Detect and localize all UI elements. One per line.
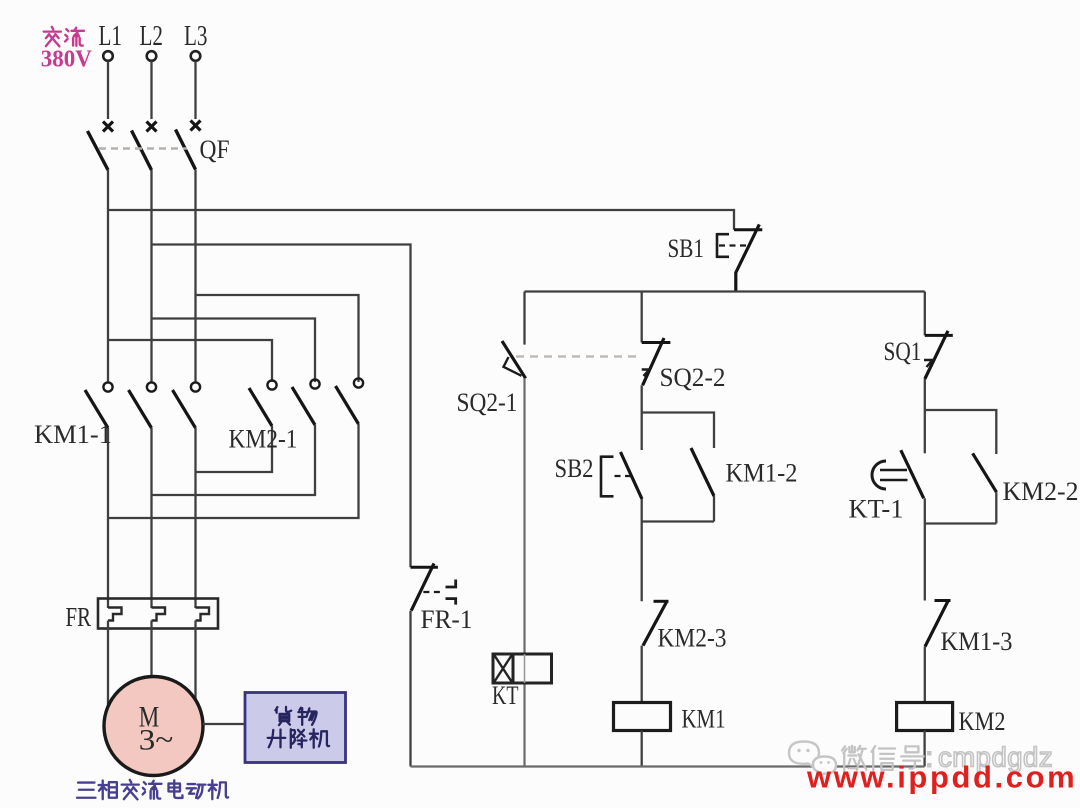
FR heater element 1: [108, 608, 122, 621]
wire L3 column QF to KM1-1: [194, 170, 196, 383]
wire KM2 coil to bottom rail: [923, 731, 925, 767]
motor M circle: [104, 677, 203, 776]
QF pole 1 blade: [88, 131, 109, 170]
contact KM1-2 (NO self-hold): [691, 448, 714, 496]
QF pole 1 X mark: [103, 122, 113, 132]
wire FR-1 to bottom rail: [409, 611, 411, 767]
thermal relay FR box: [98, 599, 218, 629]
thermal contact FR-1 (NC): [411, 563, 456, 610]
QF pole 2 blade: [132, 131, 152, 171]
label 货物 (cargo): [275, 707, 316, 725]
label 三相交流电动机 (three-phase AC motor) purple: [77, 780, 228, 799]
wire L1 drop: [107, 61, 109, 119]
svg-text:L2: L2: [140, 21, 164, 52]
contact KM2-3 (NC interlock): [643, 601, 669, 645]
node L1 terminal: [103, 51, 113, 61]
wire KM2-2 leg bottom: [995, 492, 997, 523]
FR heater element 3: [196, 608, 210, 621]
pushbutton SB2 (NO): [601, 452, 642, 499]
wire KM1-1 pole1 down to motor: [107, 428, 109, 608]
contact KM1-3 (NC interlock): [925, 601, 951, 647]
svg-text:KM1-2: KM1-2: [726, 459, 798, 488]
wire bottom rail: [411, 765, 925, 767]
wire U FR to motor: [107, 621, 109, 707]
wire tap L2 to KM2-1 pole2: [152, 319, 316, 383]
FR heater element 2: [152, 608, 166, 621]
wire parallel bottom rail right: [925, 522, 997, 524]
wire down to KM2-3: [641, 522, 643, 602]
wire KM2-1 pole3 bottom crossover to U: [108, 424, 359, 518]
svg-text:KM1-3: KM1-3: [941, 627, 1013, 656]
svg-text:SQ2-2: SQ2-2: [660, 363, 726, 392]
load box 货物升降机: [245, 693, 346, 763]
wire left branch down to SQ2-1: [523, 292, 525, 345]
svg-text:KT-1: KT-1: [849, 495, 904, 524]
svg-text:KM2-1: KM2-1: [229, 425, 298, 454]
wire KM2-1 pole1 bottom crossover to W: [196, 426, 273, 472]
wire KM1-1 pole3 down to motor: [194, 428, 196, 608]
contactor coil KM2: [897, 703, 953, 731]
wire SB2 leg bottom: [641, 499, 643, 522]
wire parallel bottom rail: [642, 520, 714, 522]
wire KT-1 leg bottom: [924, 498, 926, 523]
svg-text:SQ1: SQ1: [884, 337, 922, 366]
wire tap L2 to FR-1: [152, 245, 411, 568]
wechat icon: [789, 742, 836, 777]
svg-text:L3: L3: [184, 21, 208, 52]
svg-text:380V: 380V: [41, 47, 93, 73]
wire V FR to motor: [150, 621, 152, 678]
limit switch SQ2-2 (NC): [642, 338, 671, 385]
limit switch SQ1 (NC): [924, 331, 953, 379]
svg-text:FR-1: FR-1: [421, 605, 473, 634]
svg-text:KM1: KM1: [682, 705, 726, 734]
wire W FR to motor: [194, 621, 196, 701]
wire L1 column QF to KM1-1: [107, 170, 109, 382]
contact KM1-1 pole2: [129, 382, 157, 428]
node L3 terminal: [191, 51, 201, 61]
svg-text:FR: FR: [66, 602, 92, 632]
svg-text:SB1: SB1: [668, 234, 705, 263]
contact KM1-1 pole3: [173, 382, 201, 428]
wire right branch down to SQ1: [924, 292, 926, 336]
wire KM2-3 to KM1 coil: [641, 646, 643, 703]
wire KM1-3 to KM2 coil: [924, 647, 926, 703]
wire tap L1 to KM2-1 pole1: [108, 340, 272, 382]
label 交流 (AC) magenta: [44, 27, 84, 46]
svg-text:QF: QF: [200, 135, 230, 164]
svg-text:KM2: KM2: [959, 707, 1006, 736]
wire parallel top rail: [642, 413, 714, 449]
limit switch SQ2-1 (NO): [502, 341, 526, 378]
wire KM1-2 leg bottom: [713, 496, 715, 522]
wire KT-1 leg top: [924, 410, 926, 453]
svg-text:SQ2-1: SQ2-1: [457, 388, 518, 417]
wire L3 drop: [194, 61, 196, 119]
wire L2 drop: [150, 61, 152, 119]
QF mechanical link dashed: [99, 147, 187, 149]
contact KM2-2 (NO self-hold): [973, 453, 997, 492]
wire tap L3 to KM2-1 pole3: [196, 295, 359, 382]
wire motor to load box: [203, 723, 245, 725]
wire parallel top rail right: [925, 410, 997, 454]
svg-text:SB2: SB2: [555, 454, 594, 483]
time relay coil KT: [493, 654, 552, 683]
node L2 terminal: [147, 51, 157, 61]
wire down to KM1-3: [924, 524, 926, 601]
wire KM2-1 pole2 bottom crossover to V: [152, 425, 316, 495]
label 升降机 (lift): [268, 729, 329, 747]
wire SQ1 to parallel group: [924, 379, 926, 410]
SQ2 mechanical link dashed: [516, 355, 640, 357]
watermark 微信号: (wechat id) gray outline: [842, 746, 924, 771]
svg-text:3~: 3~: [139, 724, 174, 757]
wire SQ2-2 to parallel group: [641, 385, 643, 412]
wire middle branch down to SQ2-2: [641, 292, 643, 343]
QF pole 2 X mark: [147, 122, 157, 132]
wire rail2: [525, 290, 925, 292]
wire SB2 leg top: [641, 413, 643, 451]
svg-text:KM2-3: KM2-3: [658, 624, 727, 653]
svg-text:www.ippdd.com: www.ippdd.com: [806, 760, 1077, 795]
pushbutton SB1 (NC): [717, 224, 762, 291]
contact KM2-1 pole1: [249, 380, 277, 426]
contact KM2-1 pole3: [336, 378, 364, 424]
contact KT-1 (delayed NO): [872, 450, 924, 498]
contact KM1-1 pole1: [85, 382, 113, 428]
contact KM2-1 pole2: [292, 379, 320, 425]
wire top rail L1 to SB1: [108, 210, 734, 230]
wire KM1-1 pole2 down to motor: [150, 428, 152, 608]
svg-text:KM1-1: KM1-1: [34, 420, 112, 449]
QF pole 3 X mark: [191, 121, 201, 131]
svg-text:KT: KT: [492, 681, 519, 710]
wire L2 column QF to KM1-1: [150, 170, 152, 382]
svg-text:L1: L1: [99, 21, 123, 52]
wire KM1 coil to bottom rail: [641, 731, 643, 767]
svg-text:KM2-2: KM2-2: [1003, 477, 1079, 506]
wire SQ2-1 to KT coil: [523, 378, 525, 766]
QF pole 3 blade: [176, 130, 196, 170]
contactor coil KM1: [614, 703, 671, 731]
